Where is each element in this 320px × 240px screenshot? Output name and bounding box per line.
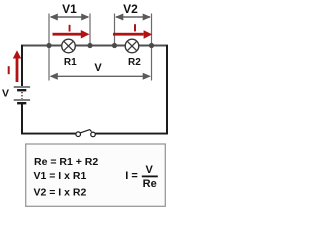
formula box	[26, 144, 166, 206]
svg-text:R1: R1	[64, 57, 77, 68]
lamp R1	[62, 39, 76, 53]
svg-text:V: V	[2, 88, 9, 100]
wire: bottom horizontal left of switch	[21, 133, 76, 135]
current arrow at battery (up)	[13, 50, 21, 82]
junction node C	[112, 43, 117, 48]
junction node D	[149, 43, 154, 48]
current arrow over R1	[53, 30, 90, 39]
junction node B	[87, 43, 92, 48]
switch left contact	[76, 132, 81, 137]
svg-text:V2 = I x R2: V2 = I x R2	[34, 187, 87, 199]
measurement tick: left (node A, x=49)	[48, 14, 49, 81]
svg-text:V2: V2	[123, 2, 138, 16]
label I over R1	[69, 25, 71, 32]
wire: top horizontal bus	[21, 45, 168, 47]
formula: I = V / Re	[125, 164, 158, 190]
battery long plate 1	[14, 86, 30, 88]
svg-text:V1: V1	[62, 2, 77, 16]
battery V (2 cells)	[14, 86, 30, 104]
svg-text:Re = R1 + R2: Re = R1 + R2	[34, 156, 98, 168]
svg-text:V1 = I x R1: V1 = I x R1	[34, 170, 87, 182]
svg-text:I =: I =	[125, 170, 138, 182]
svg-text:V: V	[94, 62, 102, 74]
battery dotted link	[21, 92, 23, 99]
battery long plate 2	[14, 99, 30, 101]
wire: left vertical (battery branch, lower)	[21, 104, 23, 135]
V1 span arrow	[50, 14, 90, 21]
measurement tick: between lamps right (x=114.5)	[114, 14, 115, 46]
label I at battery	[8, 66, 10, 74]
battery short plate 1	[17, 89, 26, 91]
V2 span arrow	[115, 14, 151, 21]
measurement tick: right (node D, x=151.5)	[151, 14, 152, 81]
label I over R2	[134, 24, 136, 31]
svg-text:V: V	[146, 164, 154, 176]
current arrow over R2	[113, 30, 152, 39]
battery short plate 2	[17, 102, 26, 104]
wire: bottom horizontal right of switch	[95, 133, 168, 135]
measurement tick: between lamps left (x=90)	[89, 14, 90, 46]
switch right contact	[91, 132, 96, 137]
junction node A	[46, 43, 51, 48]
svg-text:Re: Re	[143, 178, 157, 190]
switch blade	[81, 130, 90, 133]
switch (open) in bottom wire	[76, 130, 95, 137]
svg-text:R2: R2	[128, 57, 141, 68]
lamp R2	[125, 39, 139, 53]
V full span arrow	[50, 73, 151, 80]
wire: left vertical (battery branch, upper)	[21, 45, 23, 86]
wire: right vertical	[166, 45, 168, 135]
